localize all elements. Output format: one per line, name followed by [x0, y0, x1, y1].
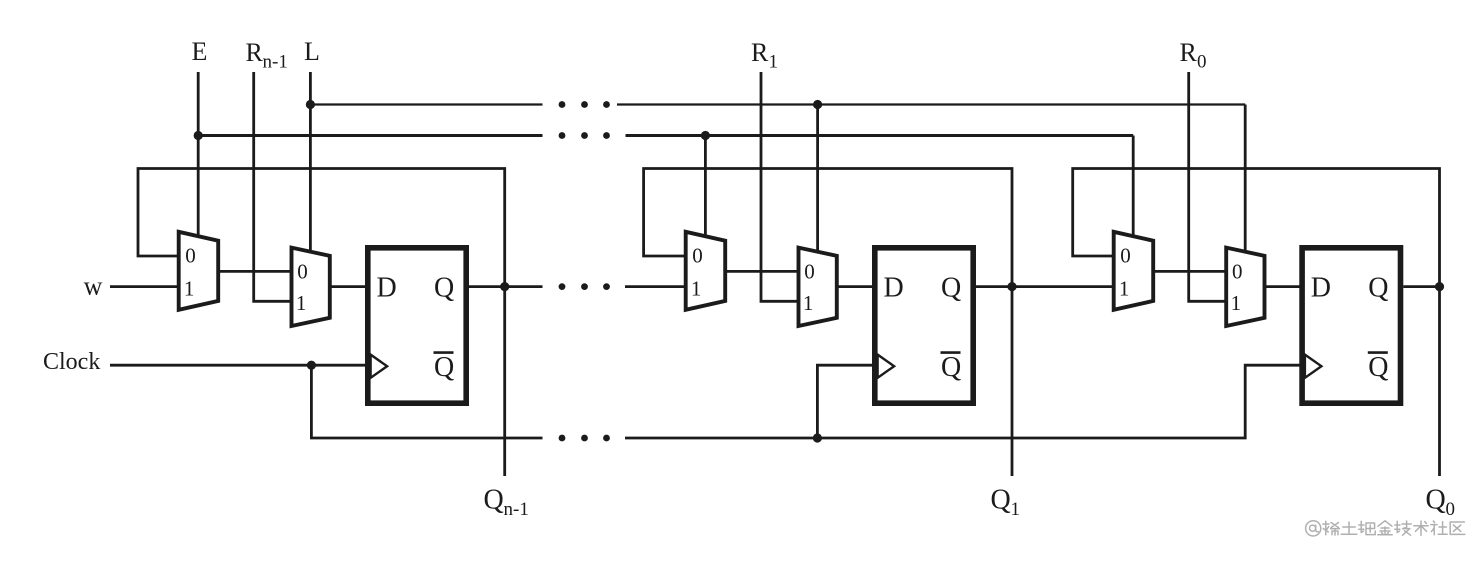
flip-flop D stage 0 — [1302, 248, 1400, 403]
svg-text:1: 1 — [691, 277, 702, 301]
watermark — [1306, 521, 1465, 536]
wire L line right segment — [617, 103, 1245, 105]
junction Q output stage 1 — [1007, 282, 1016, 291]
wire Q output stage 1 to stage 0 — [976, 285, 1115, 288]
svg-text:Q: Q — [434, 352, 454, 383]
svg-text:L: L — [304, 37, 320, 66]
svg-text:1: 1 — [296, 291, 307, 315]
wire Clock input — [110, 364, 365, 367]
wire E vertical drop to mux select — [197, 72, 200, 238]
wire bottom clock distribution right segment with riser to stage 0 — [625, 365, 1300, 438]
junction L line at stage n-1 — [306, 100, 315, 109]
wire L drop to mux select stage 1 — [816, 105, 819, 254]
svg-text:1: 1 — [1231, 291, 1242, 315]
svg-text:1: 1 — [184, 277, 195, 301]
junction Q output stage n-1 — [500, 282, 509, 291]
svg-text:0: 0 — [297, 260, 308, 284]
svg-text:D: D — [884, 272, 904, 303]
wire mux-to-mux stage 1 — [725, 270, 800, 273]
svg-text:Q: Q — [434, 272, 454, 303]
svg-text:Q: Q — [941, 352, 961, 383]
wire mux to D input stage 0 — [1265, 285, 1303, 288]
wire Q_1 tail — [1011, 287, 1014, 476]
svg-text:0: 0 — [692, 243, 703, 267]
wire Q feedback loop stage 0 — [1073, 169, 1440, 287]
svg-text:1: 1 — [1119, 277, 1130, 301]
wire E line left segment — [198, 134, 542, 137]
ellipsis dots on L line — [559, 101, 610, 108]
wire L line left segment — [310, 103, 542, 105]
junction E line at stage n-1 — [194, 131, 203, 140]
junction clock stage n-1 — [307, 361, 316, 370]
flip-flop D stage 1 — [875, 248, 973, 403]
wire R_1 drop to mux input 1 — [761, 72, 800, 301]
mux enable stage 1 (0/1) — [686, 232, 726, 310]
wire shift input stage 1 — [625, 285, 687, 288]
svg-text:Clock: Clock — [43, 349, 100, 375]
wire E line right segment — [626, 134, 1134, 137]
junction L line at stage 1 — [813, 100, 822, 109]
junction Q output stage 0 — [1435, 282, 1444, 291]
ellipsis dots on E line — [559, 132, 610, 139]
wire Q output stage n-1 — [469, 285, 543, 288]
svg-text:Q: Q — [1368, 272, 1388, 303]
svg-text:Q: Q — [1368, 352, 1388, 383]
wire clock riser stage 1 — [817, 365, 872, 438]
wire R_n-1 drop to mux input 1 — [254, 72, 293, 301]
svg-text:0: 0 — [1120, 243, 1131, 267]
wire Q_0 tail — [1438, 287, 1441, 476]
junction E line at stage 1 — [701, 131, 710, 140]
svg-text:Q: Q — [941, 272, 961, 303]
svg-text:0: 0 — [804, 260, 815, 284]
svg-text:0: 0 — [1232, 260, 1243, 284]
wire Q_n-1 tail — [503, 287, 506, 476]
flip-flop D stage n-1 — [368, 248, 466, 403]
wire Q output stage 0 — [1403, 285, 1439, 288]
wire E line end drop to mux select stage 0 — [1132, 136, 1135, 239]
wire mux to D input stage n-1 — [330, 285, 368, 288]
wire R_0 drop to mux input 1 — [1189, 72, 1228, 301]
svg-text:D: D — [377, 272, 397, 303]
mux enable stage 0 (0/1) — [1114, 232, 1154, 310]
mux load stage 0 (0/1) — [1226, 248, 1264, 326]
mux enable stage n-1 (0/1) — [179, 232, 219, 310]
wire mux-to-mux stage n-1 — [218, 270, 293, 273]
wire Q feedback loop stage n-1 — [138, 169, 505, 287]
wire w input — [110, 285, 180, 288]
svg-text:w: w — [84, 272, 103, 301]
mux load stage 1 (0/1) — [799, 248, 837, 326]
ellipsis dots on data row — [559, 283, 610, 290]
svg-text:D: D — [1311, 272, 1331, 303]
wire mux-to-mux stage 0 — [1153, 270, 1228, 273]
mux load stage n-1 (0/1) — [292, 248, 330, 326]
wire clock drop to bottom distribution — [311, 365, 542, 438]
wire L line end drop to mux select stage 0 — [1244, 105, 1247, 254]
svg-text:0: 0 — [185, 243, 196, 267]
wire Q feedback loop stage 1 — [644, 169, 1012, 287]
wire E drop to mux select stage 1 — [704, 136, 707, 239]
wire L vertical drop to mux select — [309, 72, 312, 253]
ellipsis dots on clock row — [559, 435, 610, 442]
svg-text:E: E — [192, 37, 208, 66]
svg-text:1: 1 — [803, 291, 814, 315]
junction clock stage 1 — [813, 433, 822, 442]
wire mux to D input stage 1 — [837, 285, 875, 288]
